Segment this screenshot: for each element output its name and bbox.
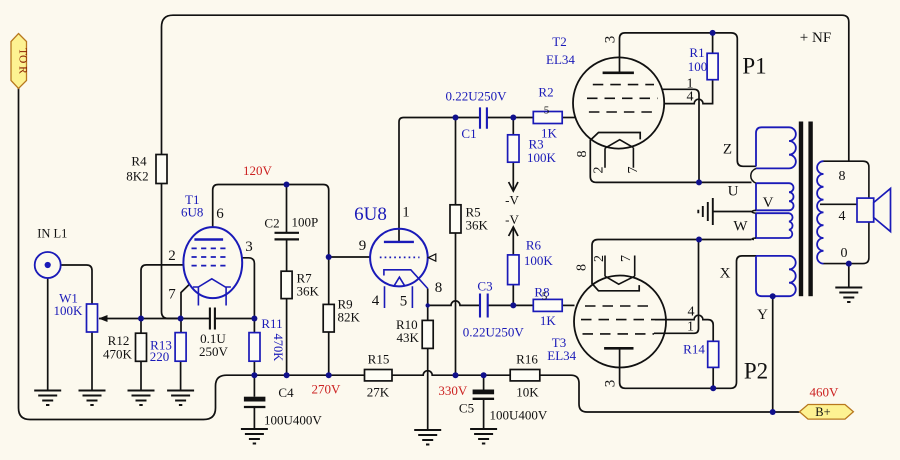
- node: T1 cathode / R13: [178, 316, 184, 322]
- wire: NF feedback top line from R4 top to secondary tap 8: [162, 15, 849, 161]
- capacitor C2: [275, 233, 300, 240]
- wire: R14 bottom to anode line: [712, 367, 714, 388]
- node: secondary 0 tap: [846, 261, 852, 267]
- node: T3 cathode W tap: [696, 237, 702, 243]
- svg-text:C4: C4: [278, 385, 294, 400]
- capacitor C3: [480, 294, 488, 318]
- wire: R3 top lead: [512, 118, 514, 135]
- svg-text:470K: 470K: [271, 334, 285, 362]
- svg-text:R14: R14: [683, 342, 705, 357]
- resistor R3: [508, 135, 519, 162]
- svg-text:4: 4: [372, 293, 380, 309]
- ground at input jack: [34, 391, 61, 406]
- resistor R9: [323, 304, 334, 332]
- svg-text:0: 0: [841, 246, 848, 261]
- wire: 120V rail from T1 pin6 to R9 top: [213, 185, 329, 305]
- svg-text:C2: C2: [264, 216, 279, 231]
- wire: R9 bottom to 270V rail: [328, 332, 330, 375]
- svg-text:P1: P1: [742, 54, 766, 79]
- svg-text:100K: 100K: [527, 150, 557, 165]
- pentode 6U8 envelope: [370, 229, 428, 287]
- svg-text:100K: 100K: [524, 253, 554, 268]
- ground at R12: [128, 391, 155, 406]
- wire: R7 bottom to 270V rail: [286, 299, 288, 376]
- svg-text:6: 6: [216, 206, 224, 222]
- svg-text:+ NF: + NF: [800, 30, 831, 46]
- T3 cathode tent heater legs: [605, 256, 635, 285]
- svg-text:8: 8: [575, 264, 590, 271]
- arrow: -V up arrowhead for R6: [509, 227, 518, 236]
- node: R6 / R8: [510, 302, 516, 308]
- ground at secondary 0 tap: [835, 288, 862, 303]
- resistor R13: [175, 333, 186, 362]
- arrow: -V down arrowhead: [509, 182, 518, 191]
- electrolytic capacitor C4: [244, 397, 266, 407]
- pentode grid arrow triangle: [428, 254, 436, 261]
- svg-text:470K: 470K: [103, 347, 133, 362]
- transformer S-bend U: [751, 168, 756, 183]
- wire: C2 to R7: [286, 240, 288, 271]
- node: R3 / R2: [510, 115, 516, 121]
- wire: secondary tap 4 to speaker: [820, 203, 857, 205]
- node: 120V rail / C2 junction: [284, 182, 290, 188]
- svg-text:220: 220: [150, 349, 170, 364]
- node: R7 on 270V rail: [284, 372, 290, 378]
- svg-text:B+: B+: [815, 405, 830, 419]
- resistor R5: [450, 205, 461, 233]
- svg-text:330V: 330V: [438, 383, 468, 398]
- svg-text:C5: C5: [459, 401, 474, 416]
- svg-text:9: 9: [359, 238, 367, 254]
- transformer primary winding Z-U: [756, 127, 796, 168]
- wire: pentode anode pin 1 up and right to C1: [399, 118, 479, 242]
- transformer primary winding U-V: [756, 183, 794, 210]
- transformer primary winding V-W: [756, 213, 793, 238]
- svg-text:7: 7: [168, 287, 176, 303]
- wire: 0.1U cap to R11 column: [215, 318, 254, 320]
- wire: R11 bottom to rail: [253, 361, 255, 375]
- svg-text:1K: 1K: [540, 313, 557, 328]
- ground at C4: [241, 429, 268, 444]
- svg-text:EL34: EL34: [547, 348, 576, 363]
- node: R14 / anode line: [710, 385, 716, 391]
- svg-text:P2: P2: [744, 359, 768, 384]
- wire: V ground lead to transformer: [713, 211, 752, 213]
- svg-text:IN L1: IN L1: [37, 227, 67, 241]
- wire: R4 bottom to T1 cathode node: [162, 184, 181, 319]
- wire: R6 bottom to C3 line: [512, 285, 514, 306]
- svg-text:3: 3: [603, 36, 619, 44]
- resistor R14: [708, 341, 719, 367]
- wire: input jack to W1: [61, 265, 92, 304]
- svg-text:2: 2: [168, 248, 176, 264]
- node: R11 / C4 on 270V rail: [251, 372, 257, 378]
- wire: secondary tap 0 to ground: [848, 264, 850, 287]
- svg-text:100U400V: 100U400V: [264, 413, 322, 428]
- wire: C5 bottom lead to ground: [483, 399, 485, 429]
- svg-text:-V: -V: [505, 212, 519, 227]
- svg-text:TO R: TO R: [17, 48, 29, 74]
- wire: U tap line to transformer: [699, 181, 752, 183]
- wire: T2 pin 1 down to cathode node: [662, 89, 699, 182]
- resistor R16: [510, 370, 540, 381]
- resistor R15: [365, 370, 393, 381]
- node: C5 on 330V rail: [481, 372, 487, 378]
- transformer S-bend V: [752, 210, 756, 213]
- capacitor 0.1U 250V: [210, 308, 215, 330]
- wire: mid rail R15 right to hop to R16: [392, 371, 510, 375]
- svg-text:R15: R15: [368, 352, 390, 367]
- wire: C1 right to R2: [488, 117, 534, 119]
- svg-text:8: 8: [575, 151, 590, 158]
- node: Y tap: [770, 293, 776, 299]
- svg-text:250V: 250V: [199, 344, 229, 359]
- wire: R12 bottom to ground: [140, 361, 142, 390]
- pentode heater tent and legs: [385, 277, 413, 308]
- potentiometer W1 wiper arrow: [99, 315, 108, 322]
- svg-text:R16: R16: [516, 352, 538, 367]
- wire: R5 bottom to 330V rail: [455, 233, 457, 375]
- ground at C5: [470, 429, 497, 444]
- wire: T3 cathode bracket and pin 8 up to W line: [592, 240, 639, 291]
- ground sideways at transformer V tap: [698, 198, 713, 225]
- wire: T2 cathode bracket and pin 8 down to U node: [590, 133, 699, 183]
- resistor R4: [156, 155, 167, 184]
- transformer core bars: [799, 122, 813, 297]
- svg-text:2: 2: [592, 167, 607, 174]
- resistor R10: [422, 320, 433, 348]
- transformer S-bend W: [752, 238, 756, 240]
- svg-text:1: 1: [687, 319, 694, 334]
- wire: R10 bottom through rail hop to ground: [427, 348, 429, 430]
- svg-text:10K: 10K: [516, 385, 539, 400]
- wire: T2 anode pin 3 up to top line and Z winding: [620, 33, 757, 166]
- node: R5 on 330V rail: [453, 372, 459, 378]
- wire: R8 to T3 grid pin 5: [562, 304, 574, 306]
- svg-text:7: 7: [619, 255, 634, 262]
- potentiometer W1 body: [87, 304, 98, 332]
- svg-text:120V: 120V: [243, 163, 273, 178]
- pentode cathode bracket and pin 8 diagonal: [384, 270, 428, 289]
- wire: R3 bottom to -V arrow: [512, 162, 514, 189]
- wire: pentode pin 9 grid tap: [329, 256, 371, 258]
- node: C1 / R5: [453, 115, 459, 121]
- svg-text:100K: 100K: [54, 303, 84, 318]
- wire: R13 bottom to ground: [180, 361, 182, 390]
- wire: pentode pin 8 cathode down through C3 node to R10: [427, 289, 429, 321]
- wire: TO R terminal down and around bottom-left loop to 270V rail: [19, 88, 365, 420]
- T3 anode bar: [604, 347, 633, 350]
- wire: R1 top lead: [712, 33, 714, 53]
- svg-text:EL34: EL34: [546, 52, 575, 67]
- wire: T3 anode pin 3 down and up to X winding: [620, 256, 756, 388]
- wire: C3 right to R8: [488, 304, 534, 306]
- node: R9 on 270V rail: [326, 372, 332, 378]
- T2 anode bar: [603, 72, 634, 75]
- node: 0.1U to anode column: [251, 316, 257, 322]
- svg-text:T2: T2: [552, 34, 566, 49]
- input jack IN L1: [35, 252, 61, 278]
- wire: R1 bottom jog to T2 pin 4 with hop over pin1 line: [664, 80, 713, 104]
- T1 anode bar: [194, 238, 223, 240]
- speaker: [857, 189, 891, 232]
- svg-text:R1: R1: [689, 45, 704, 60]
- triode T1 6U8 envelope: [183, 227, 242, 298]
- svg-text:8K2: 8K2: [126, 169, 148, 184]
- svg-text:5: 5: [544, 105, 550, 117]
- svg-text:43K: 43K: [397, 330, 420, 345]
- svg-text:3: 3: [603, 380, 619, 388]
- transformer secondary winding bumps: [817, 161, 823, 263]
- ground at R10: [414, 430, 441, 445]
- svg-text:8: 8: [839, 169, 846, 184]
- svg-text:100U400V: 100U400V: [490, 408, 548, 423]
- wire: C5 top lead: [483, 375, 485, 389]
- svg-text:5: 5: [542, 291, 548, 303]
- svg-text:Z: Z: [723, 142, 732, 158]
- svg-text:0.22U250V: 0.22U250V: [463, 325, 525, 340]
- svg-text:5: 5: [400, 294, 408, 310]
- node: anode / R1 top: [710, 30, 716, 36]
- wire: R2 to T2 grid pin 5: [562, 117, 575, 119]
- pentode grid dotted row: [380, 256, 420, 258]
- wire: W1 wiper line to cathode node: [99, 318, 181, 320]
- node: B+ rail / Y: [770, 409, 776, 415]
- wire: jack bottom to ground: [47, 278, 49, 390]
- tube T3 EL34 envelope: [574, 276, 666, 368]
- resistor R12: [136, 333, 147, 361]
- svg-text:3: 3: [245, 239, 253, 255]
- svg-text:460V: 460V: [809, 385, 839, 400]
- resistor R1: [707, 53, 718, 79]
- ground at R13: [167, 391, 194, 406]
- svg-text:R11: R11: [261, 316, 282, 331]
- svg-text:R6: R6: [526, 238, 542, 253]
- svg-text:X: X: [720, 266, 731, 282]
- terminal TO R: [11, 34, 29, 89]
- svg-text:V: V: [763, 195, 774, 211]
- svg-text:270V: 270V: [312, 382, 342, 397]
- svg-text:R4: R4: [131, 154, 147, 169]
- resistor R2: [533, 112, 562, 124]
- transformer secondary outline: [824, 161, 869, 263]
- node: pin8 / C3: [426, 303, 430, 307]
- svg-text:U: U: [728, 184, 739, 200]
- svg-text:C1: C1: [461, 126, 476, 141]
- wire: T1 pin 2 grid to R12: [141, 265, 184, 333]
- wire: W1 bottom to ground: [91, 332, 93, 390]
- svg-text:36K: 36K: [297, 284, 320, 299]
- svg-text:82K: 82K: [338, 310, 361, 325]
- svg-text:100: 100: [688, 59, 708, 74]
- wire: T1 pin 7 cathode lead: [181, 285, 189, 333]
- resistor R7: [281, 271, 292, 298]
- svg-text:27K: 27K: [367, 385, 390, 400]
- wire: T3 pin 1 line up to W node: [654, 240, 699, 334]
- tube T2 EL34 envelope: [573, 57, 664, 148]
- wire: cathode node to 0.1U cap: [181, 318, 210, 320]
- transformer primary winding X-Y: [756, 256, 796, 296]
- capacitor C1: [480, 107, 487, 128]
- node: pin 9 grid tap: [326, 254, 332, 260]
- wire: T3 pin 4 jog to R14 with hop over pin1 vertical: [655, 315, 713, 341]
- svg-text:1: 1: [402, 205, 410, 221]
- svg-text:6U8: 6U8: [181, 205, 203, 220]
- wire: C3 line with hop over R5 column: [428, 301, 479, 305]
- wire: mid rail R16 right, S-bend down to B+ rail: [540, 375, 800, 412]
- electrolytic capacitor C5: [473, 390, 495, 399]
- svg-text:R2: R2: [538, 85, 553, 100]
- svg-text:8: 8: [435, 280, 443, 296]
- svg-text:C3: C3: [477, 279, 492, 294]
- resistor R11: [249, 333, 260, 362]
- wire: Y tap down to B+ rail: [772, 296, 774, 412]
- svg-text:36K: 36K: [466, 218, 489, 233]
- wire: C2 column from 120V rail: [286, 185, 288, 233]
- wire: R6 top lead from arrow: [512, 227, 514, 255]
- resistor R8: [533, 299, 562, 311]
- wire: C4 leads: [253, 375, 255, 429]
- svg-text:4: 4: [687, 90, 694, 105]
- T2 grid dashes: [587, 85, 658, 112]
- terminal B+: [800, 405, 854, 420]
- svg-text:4: 4: [688, 304, 695, 319]
- wire: C1 node to R5 top: [455, 118, 457, 205]
- resistor R6: [508, 255, 519, 285]
- svg-text:100P: 100P: [292, 215, 319, 230]
- svg-text:Y: Y: [757, 307, 768, 323]
- svg-text:W: W: [733, 219, 748, 235]
- node: T2 cathode U tap: [696, 179, 702, 185]
- ground at W1: [79, 391, 106, 406]
- svg-text:7: 7: [626, 167, 641, 174]
- svg-text:0.22U250V: 0.22U250V: [445, 89, 507, 104]
- svg-text:4: 4: [839, 209, 846, 224]
- T1 cathode tent and heater legs: [193, 279, 231, 306]
- node: R12 / wiper: [138, 316, 144, 322]
- pentode anode bar: [384, 241, 414, 243]
- T3 grid dashes: [581, 306, 655, 334]
- T2 cathode tent heater legs: [605, 140, 633, 168]
- svg-text:-V: -V: [505, 193, 519, 208]
- svg-text:2: 2: [592, 255, 607, 262]
- T1 grid dashes: [192, 248, 227, 265]
- wire: T1 pin 3 anode to R11: [242, 258, 254, 333]
- svg-text:6U8: 6U8: [354, 204, 387, 225]
- wire: W tap line from T3 cathode corner to transformer: [598, 239, 752, 241]
